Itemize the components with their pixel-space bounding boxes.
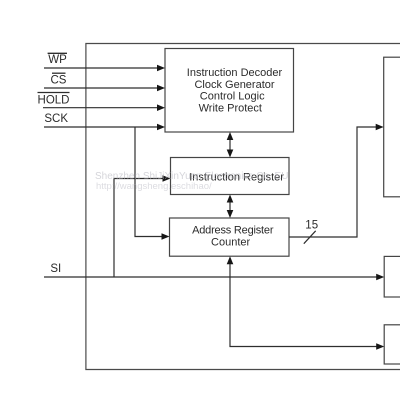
wire SCK (44, 126, 159, 128)
svg-text:Instruction Decoder: Instruction Decoder (187, 67, 283, 79)
svg-text:HOLD: HOLD (38, 94, 70, 106)
block U3 Address Register Counter (170, 218, 290, 256)
outer box (86, 44, 400, 370)
wire SI branch to U2 (114, 179, 164, 278)
svg-text:WP: WP (48, 54, 67, 66)
arrowhead up into U3 bottom (227, 256, 234, 264)
arrowhead HOLD into U1 (157, 104, 165, 111)
svg-text:Control Logic: Control Logic (200, 91, 265, 103)
arrowhead up into U1 bottom (227, 132, 234, 140)
block U6 right bottom (cut off) (384, 325, 400, 364)
svg-text:Counter: Counter (211, 237, 250, 249)
arrowhead SCK branch into U3 (162, 233, 170, 240)
watermark line 1 (95, 171, 288, 182)
arrowhead down into U2 top (227, 150, 234, 158)
arrowhead bus into U4 (376, 124, 384, 131)
wire SCK branch to U3 (135, 127, 163, 237)
svg-text:Address Register: Address Register (192, 225, 274, 237)
svg-text:Write Protect: Write Protect (199, 102, 262, 114)
arrowhead SI branch into U2 (163, 175, 171, 182)
arrowhead SCK into U1 (157, 124, 165, 131)
block U5 right middle (cut off) (384, 256, 400, 297)
bus slash (304, 231, 316, 244)
label CS with overline (52, 72, 66, 74)
arrowhead SI into U5 (376, 274, 384, 281)
wire SI branch vertical to U3 and U6 (230, 263, 378, 347)
label WP with overline (48, 52, 67, 54)
arrowhead WP into U1 (157, 65, 165, 72)
svg-text:SCK: SCK (44, 113, 68, 125)
wire CS (44, 87, 159, 89)
wire WP (44, 67, 159, 69)
wire SI main (44, 276, 378, 278)
wire U3 output 15-bit bus to U4 (289, 127, 377, 237)
svg-text:15: 15 (305, 219, 318, 231)
wire U2-U3 double arrow (229, 201, 231, 212)
arrowhead into U6 (376, 343, 384, 350)
wire HOLD (43, 107, 159, 109)
svg-text:Clock Generator: Clock Generator (194, 79, 274, 91)
svg-text:SI: SI (50, 263, 61, 275)
arrowhead down into U3 top (227, 210, 234, 218)
block U2 Instruction Register (171, 158, 290, 195)
block U4 right top (cut off) (384, 57, 400, 197)
svg-text:CS: CS (51, 74, 67, 86)
watermark line 2 (96, 181, 212, 192)
label HOLD with overline (38, 92, 70, 94)
arrowhead up into U2 bottom (227, 195, 234, 203)
block U1 Instruction Decoder / Clock Generator / Control Logic / Write Protect (165, 49, 294, 133)
arrowhead CS into U1 (157, 85, 165, 92)
wire U1-U2 double arrow (229, 139, 231, 152)
